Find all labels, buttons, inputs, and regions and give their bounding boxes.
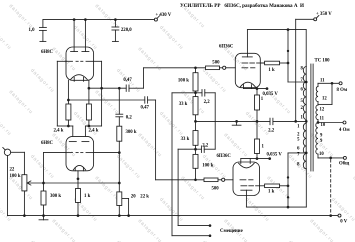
- svg-text:11: 11: [320, 117, 325, 122]
- capacitor 1,0: [42, 20, 44, 28]
- svg-text:33 k: 33 k: [181, 137, 190, 142]
- svg-text:22: 22: [10, 168, 15, 173]
- svg-text:2,4 k: 2,4 k: [89, 129, 99, 134]
- capacitor 220,0: [114, 20, 116, 27]
- svg-text:+ 350 V: + 350 V: [316, 12, 332, 17]
- svg-text:6П36С: 6П36С: [219, 44, 234, 49]
- svg-text:0,035 V: 0,035 V: [263, 92, 279, 97]
- V4 g2 dashed: [241, 185, 247, 187]
- secondary winding 10-9-9'-10': [316, 123, 318, 155]
- V3 g1 dashed: [242, 67, 248, 69]
- dashed wire Obsch to 0V: [330, 160, 332, 215]
- wire V2 anode lead b: [85, 125, 89, 127]
- V1 grid dashed: [66, 60, 73, 62]
- resistor 100k upper: [193, 73, 198, 91]
- transformer pin labels right: [319, 79, 327, 158]
- ground symbol mid: [236, 121, 238, 125]
- capacitor 0,2: [116, 113, 123, 115]
- wire pin11 to 8 Om: [317, 83, 319, 86]
- svg-text:1 k: 1 k: [268, 190, 275, 195]
- wire V3 anode to pin8: [247, 29, 306, 31]
- wire +430V rail: [43, 19, 154, 21]
- resistor 1k V2 cathode: [76, 189, 81, 203]
- grid bus vertical left: [43, 153, 45, 216]
- transformer primary winding upper: [303, 67, 306, 120]
- svg-text:300 k: 300 k: [50, 194, 61, 199]
- secondary winding 12'-11': [316, 105, 318, 119]
- svg-text:22 k: 22 k: [140, 195, 149, 200]
- resistor 1 ohm lower: [256, 121, 258, 139]
- V3 anode: [242, 56, 252, 58]
- resistor 1k g2 upper: [260, 62, 264, 64]
- wire pin10' to Obsch: [317, 154, 319, 158]
- bias feed wire A: [172, 92, 196, 94]
- svg-text:4 Ом: 4 Ом: [339, 128, 350, 133]
- capacitor 0,47 upper: [125, 85, 127, 92]
- V2 grid exit left: [44, 152, 67, 154]
- transformer primary winding lower: [303, 123, 306, 169]
- wire coupling lower y100: [68, 99, 144, 101]
- svg-text:УСИЛИТЕЛЬ РР 6П36С, разработ: УСИЛИТЕЛЬ РР 6П36С, разработка Манакова …: [180, 2, 304, 9]
- V1 anode lead a: [73, 20, 75, 52]
- terminal +350V: [314, 18, 317, 21]
- svg-text:100 k: 100 k: [10, 174, 21, 179]
- V1 cathode leg left: [67, 80, 69, 104]
- resistor 33k upper: [193, 97, 198, 115]
- svg-text:0 V: 0 V: [340, 219, 348, 224]
- node rail dot b: [84, 18, 87, 21]
- wire g2 upper to pin7: [287, 30, 289, 82]
- bottom rail: [8, 215, 339, 217]
- tube V3 6P36S upper envelope: [235, 53, 260, 87]
- svg-text:Общ: Общ: [339, 161, 350, 166]
- node rail dot a: [73, 18, 76, 21]
- input connector X1: [4, 149, 10, 155]
- wire cross-couple right: [89, 125, 102, 127]
- ground symbol on rail: [43, 216, 45, 220]
- svg-text:ТС 180: ТС 180: [315, 58, 331, 63]
- V4 cathode arc top: [239, 163, 255, 168]
- terminal 8 Om: [339, 82, 342, 85]
- svg-text:300 k: 300 k: [126, 130, 137, 135]
- node rail dot c: [114, 18, 117, 21]
- svg-text:0,47: 0,47: [123, 78, 132, 83]
- svg-text:100 k: 100 k: [178, 78, 189, 83]
- resistor 300k mid: [117, 126, 122, 141]
- V4 g1 dashed: [240, 179, 246, 181]
- svg-text:+ 430 V: + 430 V: [156, 13, 172, 18]
- V1 cathode arc: [71, 75, 88, 80]
- wire g2 lower to pin7': [287, 153, 289, 207]
- V2 grid dashed: [66, 152, 73, 154]
- svg-text:10: 10: [319, 152, 324, 157]
- tube V1 6N8S envelope: [66, 47, 94, 80]
- svg-text:1,0: 1,0: [29, 28, 36, 33]
- wire pin10 to 4 Om: [317, 120, 319, 123]
- svg-text:2,2: 2,2: [202, 143, 209, 148]
- trimmer tap: [122, 198, 128, 200]
- svg-text:220,0: 220,0: [121, 28, 132, 33]
- svg-text:1 k: 1 k: [268, 68, 275, 73]
- wire V3 cathode y88.6: [244, 88, 268, 90]
- svg-text:0,2: 0,2: [126, 115, 133, 120]
- resistor 1 ohm upper: [256, 89, 258, 95]
- bias feed wire B: [178, 148, 195, 150]
- secondary winding 11-12: [316, 86, 318, 101]
- wire coupling upper y88: [89, 87, 126, 89]
- V1 grid exit right: [94, 60, 102, 62]
- wire V4 anode to pin8': [246, 206, 306, 208]
- ground stub of 1,0: [40, 40, 46, 42]
- feedback chain vertical x119: [118, 88, 120, 114]
- wire V4 cathode y158.6: [241, 158, 270, 160]
- resistor 1k g2 lower: [260, 185, 265, 187]
- trimmer 22k: [117, 192, 122, 206]
- V3 g2 dashed: [242, 62, 248, 64]
- resistor 2,4k right: [86, 104, 91, 120]
- V2 cathode lead: [77, 171, 79, 189]
- V3 cathode arc: [240, 82, 255, 87]
- wire V2 anode lead a: [68, 125, 72, 127]
- svg-text:20: 20: [131, 195, 136, 200]
- V1 anode lead b: [84, 20, 86, 52]
- capacitor 0,47 lower: [144, 97, 146, 104]
- svg-text:2,4 k: 2,4 k: [54, 129, 64, 134]
- wire ground/B+ mid y121: [196, 120, 271, 122]
- V2 anode bar a: [69, 141, 76, 143]
- svg-text:6Н8С: 6Н8С: [41, 50, 54, 55]
- svg-text:8 Ом: 8 Ом: [337, 88, 348, 93]
- wire grid upper 6P36S: [144, 67, 206, 69]
- resistor 33k lower: [193, 131, 198, 146]
- pot wiper arrow: [27, 182, 119, 184]
- svg-text:12: 12: [322, 97, 327, 102]
- svg-text:0,47: 0,47: [141, 105, 150, 110]
- terminal 4 Om: [343, 121, 346, 124]
- resistor 300k input: [41, 191, 46, 205]
- ground stub of 220,0: [112, 40, 118, 42]
- svg-text:500: 500: [212, 187, 220, 192]
- svg-text:2,2: 2,2: [268, 128, 275, 133]
- tube V2 6N8S envelope: [66, 136, 94, 170]
- V2 anode bar b: [82, 141, 89, 143]
- svg-text:12: 12: [320, 108, 325, 113]
- resistor 2,4k left: [66, 104, 71, 120]
- V1 grid exit left: [57, 60, 66, 62]
- capacitor 2,2 right: [269, 118, 271, 125]
- svg-text:10: 10: [321, 123, 326, 128]
- terminal Obsch: [343, 156, 346, 159]
- svg-text:6П36С: 6П36С: [217, 154, 232, 159]
- svg-text:6Н8С: 6Н8С: [41, 141, 54, 146]
- svg-text:33 k: 33 k: [179, 102, 188, 107]
- svg-text:100 k: 100 k: [202, 164, 213, 169]
- resistor 100k lower: [193, 154, 198, 168]
- grid pin circle lower: [222, 178, 225, 181]
- bias network chain x195: [195, 68, 197, 180]
- svg-text:2,2: 2,2: [204, 100, 211, 105]
- wire grid lower 6P36S: [156, 179, 204, 181]
- resistor 500 lower: [204, 178, 218, 182]
- svg-text:500: 500: [212, 61, 220, 66]
- V4 anode: [241, 189, 252, 191]
- tube V4 6P36S lower envelope: [233, 162, 260, 196]
- potentiometer 100k: [23, 152, 25, 174]
- wire 12-12' parallel link: [331, 83, 333, 104]
- terminal +430V: [154, 18, 157, 21]
- resistor 500 upper: [206, 66, 220, 70]
- svg-text:1 k: 1 k: [84, 194, 91, 199]
- wire joining 2,2 caps: [214, 93, 216, 149]
- svg-text:11: 11: [320, 79, 325, 84]
- svg-text:0,035 V: 0,035 V: [267, 153, 283, 158]
- V2 grid exit right: [94, 152, 120, 154]
- capacitor 2,2 lower: [196, 148, 202, 150]
- V2 cathode arc: [73, 165, 85, 170]
- V1 cathode leg right: [88, 80, 90, 104]
- transformer core: [310, 64, 312, 171]
- wire cross-couple left: [57, 125, 68, 127]
- grid pin circle upper: [223, 66, 226, 69]
- transformer primary lead line: [305, 67, 307, 169]
- svg-text:Смещение: Смещение: [220, 229, 243, 234]
- transformer pin labels left: [297, 67, 303, 168]
- capacitor 2,2 upper: [196, 92, 203, 94]
- node rail dots: [23, 214, 26, 217]
- terminal 0V: [338, 214, 341, 217]
